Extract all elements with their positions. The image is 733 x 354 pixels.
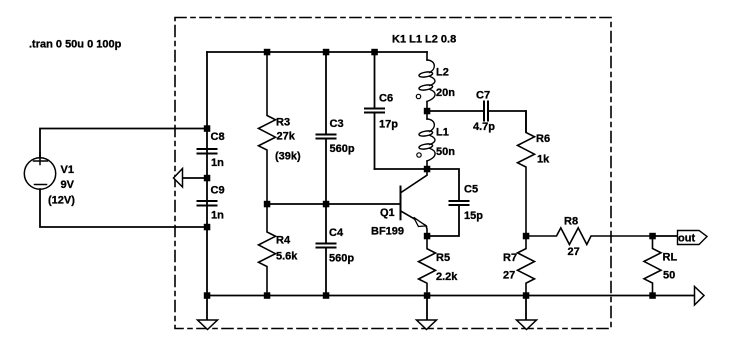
junction nodes	[204, 49, 656, 299]
wire V1 top	[40, 129, 207, 158]
svg-text:20n: 20n	[436, 87, 455, 99]
capacitor C4	[317, 204, 355, 296]
capacitor C8	[198, 131, 225, 169]
svg-text:2.2k: 2.2k	[436, 271, 458, 283]
resistor R6	[518, 111, 551, 236]
svg-text:R4: R4	[276, 234, 291, 246]
capacitor C7	[473, 90, 495, 133]
ground under R5	[417, 296, 437, 330]
svg-text:C3: C3	[330, 118, 344, 130]
svg-text:15p: 15p	[464, 210, 483, 222]
ground under R7	[517, 296, 537, 330]
node C4 bottom	[323, 292, 330, 299]
svg-text:C8: C8	[211, 131, 225, 143]
wire out tap	[653, 235, 678, 237]
svg-text:C4: C4	[329, 227, 344, 239]
svg-text:1n: 1n	[211, 210, 224, 222]
svg-text:4.7p: 4.7p	[473, 121, 495, 133]
node L1/L2 junction	[424, 108, 431, 115]
svg-text:R7: R7	[503, 252, 517, 264]
svg-text:560p: 560p	[329, 252, 354, 264]
inductor L2	[416, 52, 455, 111]
voltage source V1	[24, 153, 75, 206]
svg-text:out: out	[678, 233, 695, 245]
wire base rail	[267, 203, 400, 205]
resistor R3	[259, 52, 302, 204]
wire V1 bottom	[40, 189, 207, 227]
svg-text:27: 27	[503, 270, 515, 282]
svg-text:V1: V1	[61, 164, 74, 176]
ground under left rail	[198, 296, 218, 330]
capacitor C9	[198, 185, 225, 222]
svg-text:C6: C6	[379, 93, 393, 105]
svg-text:1n: 1n	[211, 157, 224, 169]
wire bottom rail	[207, 295, 695, 297]
capacitor C6	[365, 52, 398, 169]
inductor L1	[417, 111, 455, 169]
svg-text:27: 27	[568, 246, 580, 258]
svg-text:50n: 50n	[436, 146, 455, 158]
svg-text:C7: C7	[476, 90, 490, 102]
node C3 top	[323, 49, 330, 56]
net label out	[678, 231, 708, 245]
wire top rail	[207, 51, 427, 53]
node emitter	[424, 233, 431, 240]
node V1 top / left rail	[204, 125, 211, 132]
svg-text:L1: L1	[436, 126, 449, 138]
node collector	[424, 166, 431, 173]
node base left	[264, 201, 271, 208]
svg-text:5.6k: 5.6k	[276, 251, 298, 263]
svg-text:50: 50	[663, 269, 675, 281]
svg-text:R3: R3	[276, 116, 290, 128]
capacitor C5	[427, 169, 483, 236]
resistor R4	[259, 204, 299, 296]
svg-text:L2: L2	[436, 67, 449, 79]
node R6/R7/R8	[523, 233, 530, 240]
resistor R7 (mirrored, labels left)	[503, 236, 535, 296]
svg-text:.tran 0 50u 0 100p: .tran 0 50u 0 100p	[29, 38, 122, 50]
svg-text:560p: 560p	[330, 143, 355, 155]
node RL top / out	[649, 233, 656, 240]
svg-text:Q1: Q1	[380, 207, 395, 219]
svg-text:RL: RL	[663, 251, 678, 263]
wire C6 bottom to collector node	[375, 168, 428, 170]
node base mid	[323, 201, 330, 208]
node V1 bottom	[204, 224, 211, 231]
node RL bottom	[649, 292, 656, 299]
node R4 bottom	[264, 292, 271, 299]
svg-text:R6: R6	[536, 133, 550, 145]
svg-text:R5: R5	[436, 252, 450, 264]
wire L1/L2 tap to C7	[427, 110, 484, 112]
transistor Q1	[371, 169, 427, 238]
node R7 bottom	[523, 292, 530, 299]
resistor RL	[644, 236, 677, 296]
svg-text:1k: 1k	[537, 154, 550, 166]
node R3 top	[264, 49, 271, 56]
svg-text:R8: R8	[564, 216, 578, 228]
svg-text:27k: 27k	[277, 131, 296, 143]
dashed subcircuit border box	[175, 18, 611, 329]
resistor R8 (horizontal)	[526, 216, 652, 258]
resistor R5	[419, 236, 459, 296]
svg-text:C9: C9	[211, 185, 225, 197]
wire C7 to R6	[488, 111, 526, 132]
svg-text:C5: C5	[464, 184, 478, 196]
node C6 top	[371, 49, 378, 56]
svg-text:(12V): (12V)	[48, 194, 75, 206]
svg-text:BF199: BF199	[371, 226, 404, 238]
svg-text:K1 L1 L2 0.8: K1 L1 L2 0.8	[392, 33, 456, 45]
wire left rail	[206, 52, 208, 296]
svg-text:9V: 9V	[61, 179, 75, 191]
node left rail bottom	[204, 292, 211, 299]
ground right end of bottom rail	[695, 287, 705, 306]
ground left (C8/C9 junction)	[174, 169, 208, 188]
svg-text:17p: 17p	[379, 119, 398, 131]
capacitor C3	[317, 52, 355, 204]
node gnd tap	[204, 175, 211, 182]
svg-text:(39k): (39k)	[275, 151, 301, 163]
node R5 bottom	[424, 292, 431, 299]
